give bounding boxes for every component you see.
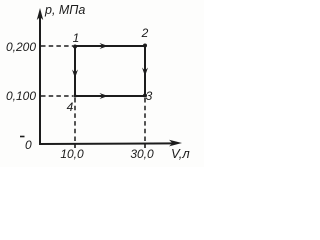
y-axis — [37, 8, 43, 145]
process line 2-3 (isochor right) — [142, 46, 148, 96]
process line 1-4 (isochor left) — [72, 46, 78, 96]
svg-text:0,200: 0,200 — [6, 40, 36, 54]
svg-text:V,л: V,л — [171, 146, 190, 161]
process line 1-2 (isobar top) — [75, 43, 145, 49]
node 2 — [143, 44, 147, 48]
dashed guide p=0.200 to point 1 — [41, 45, 73, 47]
svg-text:0,100: 0,100 — [6, 89, 36, 103]
dashed guide V=30 below point 3 — [144, 98, 146, 143]
node 4 — [73, 94, 76, 97]
svg-text:2: 2 — [141, 26, 149, 40]
node 1 — [73, 45, 77, 49]
tick 30,0 — [130, 144, 154, 161]
dashed guide p=0.100 to point 4 — [41, 95, 73, 97]
svg-text:10,0: 10,0 — [60, 147, 84, 161]
dashed guide V=10 below point 4 — [74, 98, 76, 143]
svg-text:30,0: 30,0 — [130, 147, 154, 161]
svg-text:4: 4 — [67, 100, 74, 114]
svg-text:p, МПа: p, МПа — [44, 3, 85, 17]
svg-text:0: 0 — [25, 138, 32, 152]
tick 10,0 — [60, 144, 84, 161]
svg-text:3: 3 — [146, 89, 153, 103]
node 3 — [143, 94, 147, 98]
process line 4-3 (isobar bottom) — [75, 93, 145, 99]
origin label 0 — [20, 137, 32, 153]
x-axis — [39, 140, 182, 147]
svg-text:1: 1 — [73, 31, 80, 45]
